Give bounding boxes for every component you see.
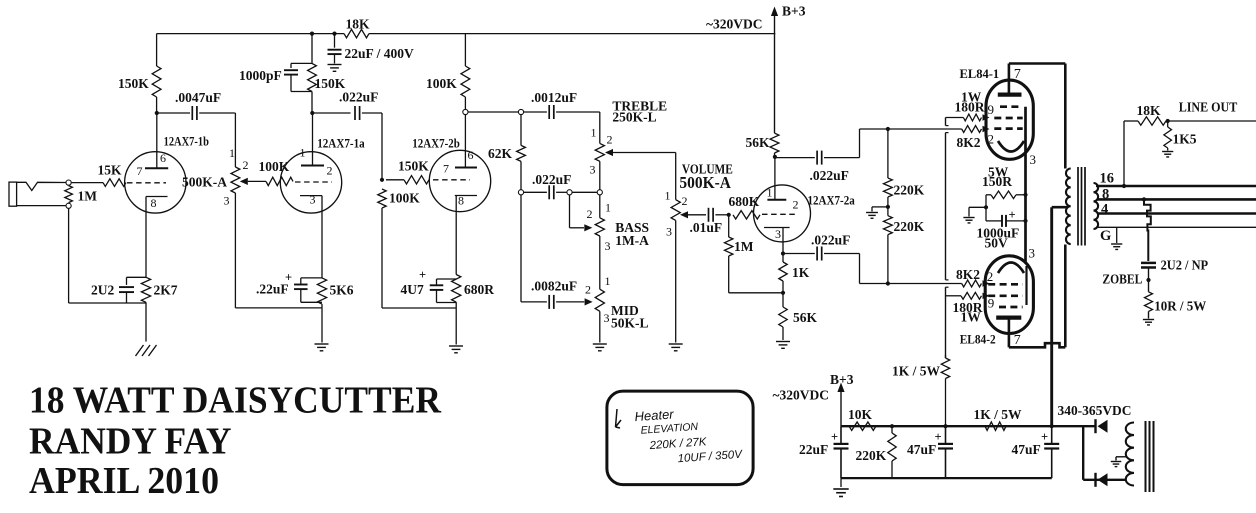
svg-text:1000pF: 1000pF: [239, 68, 282, 83]
svg-text:+: +: [1009, 208, 1016, 222]
svg-text:9: 9: [988, 102, 995, 117]
svg-text:1M-A: 1M-A: [615, 233, 649, 248]
svg-text:.022uF: .022uF: [810, 168, 849, 183]
svg-text:.0012uF: .0012uF: [531, 90, 577, 105]
svg-text:2: 2: [987, 269, 994, 284]
svg-text:.022uF: .022uF: [532, 172, 571, 187]
svg-text:3: 3: [310, 193, 316, 207]
svg-text:RANDY FAY: RANDY FAY: [29, 421, 232, 463]
svg-text:LINE OUT: LINE OUT: [1179, 100, 1238, 115]
svg-text:3: 3: [590, 163, 596, 177]
svg-text:7: 7: [1014, 67, 1021, 82]
svg-text:1K / 5W: 1K / 5W: [892, 364, 941, 379]
svg-text:680K: 680K: [729, 194, 760, 209]
svg-text:1: 1: [605, 274, 611, 288]
svg-text:47uF: 47uF: [1012, 442, 1041, 457]
svg-text:3: 3: [604, 311, 610, 325]
svg-text:8: 8: [151, 196, 157, 210]
svg-text:56K: 56K: [793, 310, 818, 325]
svg-text:10R / 5W: 10R / 5W: [1154, 299, 1206, 314]
svg-text:1: 1: [591, 126, 597, 140]
svg-text:2: 2: [988, 132, 995, 147]
svg-text:2: 2: [327, 164, 333, 178]
svg-text:.01uF: .01uF: [690, 220, 723, 235]
svg-text:2: 2: [682, 194, 688, 208]
svg-text:.0082uF: .0082uF: [531, 279, 577, 294]
svg-text:12AX7-1a: 12AX7-1a: [317, 137, 365, 151]
svg-text:18 WATT DAISYCUTTER: 18 WATT DAISYCUTTER: [29, 380, 442, 422]
svg-text:APRIL 2010: APRIL 2010: [29, 460, 219, 502]
svg-text:3: 3: [1029, 246, 1036, 261]
svg-text:1: 1: [300, 146, 306, 160]
svg-text:+: +: [831, 430, 838, 444]
svg-text:~320VDC: ~320VDC: [706, 17, 763, 32]
svg-text:ZOBEL: ZOBEL: [1102, 272, 1142, 287]
svg-text:6: 6: [160, 151, 166, 165]
svg-text:EL84-2: EL84-2: [960, 333, 996, 347]
svg-text:62K: 62K: [488, 146, 513, 161]
svg-text:9: 9: [988, 296, 995, 311]
svg-text:2U2 / NP: 2U2 / NP: [1161, 258, 1209, 273]
svg-text:150K: 150K: [118, 76, 149, 91]
svg-text:3: 3: [605, 239, 611, 253]
svg-text:3: 3: [1030, 152, 1037, 167]
svg-text:.022uF: .022uF: [811, 233, 850, 248]
svg-text:1M: 1M: [78, 189, 98, 204]
svg-text:1: 1: [229, 146, 235, 160]
svg-text:1M: 1M: [734, 239, 754, 254]
svg-text:150R: 150R: [982, 174, 1012, 189]
svg-text:18K: 18K: [346, 17, 371, 32]
svg-text:500K-A: 500K-A: [182, 175, 227, 190]
svg-text:7: 7: [1014, 333, 1021, 348]
svg-text:1: 1: [767, 186, 773, 200]
svg-text:100K: 100K: [389, 191, 420, 206]
svg-text:.022uF: .022uF: [339, 90, 378, 105]
svg-text:7: 7: [137, 164, 143, 178]
svg-text:3: 3: [224, 194, 230, 208]
svg-text:12AX7-2a: 12AX7-2a: [808, 194, 856, 208]
svg-text:10K: 10K: [848, 407, 873, 422]
svg-text:3: 3: [775, 227, 781, 241]
svg-text:G: G: [1100, 228, 1111, 244]
svg-text:50K-L: 50K-L: [611, 316, 649, 331]
svg-text:2: 2: [587, 207, 593, 221]
svg-text:~320VDC: ~320VDC: [773, 388, 830, 403]
svg-text:2: 2: [607, 133, 613, 147]
svg-text:5K6: 5K6: [330, 283, 354, 298]
svg-text:8K2: 8K2: [957, 135, 981, 150]
svg-text:2K7: 2K7: [154, 283, 178, 298]
svg-text:12AX7-1b: 12AX7-1b: [164, 135, 209, 149]
svg-text:4U7: 4U7: [401, 282, 424, 297]
svg-text:50V: 50V: [985, 236, 1009, 251]
svg-text:2: 2: [243, 158, 249, 172]
svg-text:1: 1: [665, 189, 671, 203]
svg-text:Heater: Heater: [634, 406, 675, 424]
svg-text:2U2: 2U2: [91, 283, 114, 298]
svg-text:EL84-1: EL84-1: [960, 67, 1000, 81]
svg-text:B+3: B+3: [782, 4, 806, 19]
svg-text:+: +: [419, 268, 426, 282]
svg-text:.22uF: .22uF: [256, 282, 289, 297]
svg-text:680R: 680R: [464, 282, 494, 297]
svg-text:16: 16: [1100, 171, 1115, 187]
svg-text:180R: 180R: [955, 100, 985, 115]
svg-text:7: 7: [443, 162, 449, 176]
svg-text:100K: 100K: [426, 76, 457, 91]
svg-text:+: +: [935, 430, 942, 444]
svg-text:.0047uF: .0047uF: [175, 90, 221, 105]
svg-text:220K: 220K: [894, 219, 925, 234]
svg-text:+: +: [1041, 430, 1048, 444]
svg-text:250K-L: 250K-L: [612, 110, 656, 125]
svg-text:1W: 1W: [961, 310, 982, 325]
svg-text:220K: 220K: [856, 448, 887, 463]
svg-text:15K: 15K: [98, 163, 123, 178]
svg-text:2: 2: [585, 283, 591, 297]
svg-text:3: 3: [666, 225, 672, 239]
svg-text:1K: 1K: [792, 265, 810, 280]
svg-text:1K / 5W: 1K / 5W: [974, 407, 1023, 422]
svg-text:12AX7-2b: 12AX7-2b: [412, 137, 460, 151]
svg-text:1: 1: [605, 201, 611, 215]
svg-text:220K: 220K: [894, 183, 925, 198]
svg-text:47uF: 47uF: [907, 442, 936, 457]
svg-text:22uF: 22uF: [799, 442, 828, 457]
svg-text:6: 6: [468, 148, 474, 162]
svg-text:150K: 150K: [398, 159, 429, 174]
svg-text:56K: 56K: [746, 135, 771, 150]
svg-text:+: +: [285, 271, 292, 285]
svg-text:500K-A: 500K-A: [679, 173, 731, 192]
svg-text:22uF / 400V: 22uF / 400V: [345, 46, 415, 61]
svg-text:2: 2: [793, 198, 799, 212]
svg-text:340-365VDC: 340-365VDC: [1058, 403, 1132, 418]
svg-text:18K: 18K: [1137, 103, 1162, 118]
svg-text:8: 8: [458, 194, 464, 208]
svg-text:4: 4: [1101, 202, 1108, 218]
svg-text:1K5: 1K5: [1173, 132, 1197, 147]
